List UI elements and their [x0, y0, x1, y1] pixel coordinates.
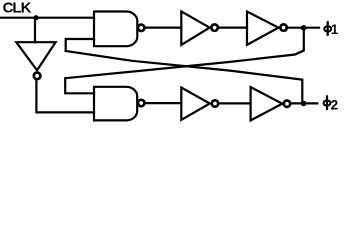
wire feedback from phi2 node: diagonal up-left to NAND U1: [66, 51, 303, 103]
nand U1 (top): [94, 12, 144, 47]
inverter U6: [181, 88, 218, 120]
svg-text:2: 2: [331, 97, 339, 112]
inverter U7: [251, 87, 291, 120]
wire inverter U2 output down and right to NAND U5 input B: [36, 80, 94, 112]
wire inverter U6 to inverter U7: [219, 102, 250, 104]
wire inverter U3 to inverter U4: [219, 27, 247, 29]
wire NAND U5 output to inverter U6: [145, 102, 181, 104]
label phi1: [324, 22, 339, 37]
svg-text:CLK: CLK: [3, 0, 32, 17]
wire junction down to inverter U2: [34, 18, 36, 43]
label CLK: [3, 0, 32, 17]
nand U5 (bottom): [94, 87, 144, 121]
inverter U3: [181, 11, 218, 45]
node phi2 junction: [301, 101, 307, 107]
svg-text:1: 1: [331, 22, 339, 37]
node phi1 junction: [301, 25, 307, 31]
wire inverter U7 output to phi2 terminal: [291, 102, 317, 104]
inverter U4: [247, 12, 287, 45]
wire inverter U4 output to phi1 terminal: [288, 27, 319, 29]
label phi2: [324, 96, 339, 112]
wire NAND U1 output to inverter U3: [145, 27, 181, 29]
wire NAND U1 input B stub with corner: [66, 39, 94, 51]
wire feedback from phi1 node: down then diagonal to NAND U5: [65, 28, 304, 94]
wire CLK input to NAND U1 input A: [1, 17, 94, 19]
inverter U2 (down-pointing triangle): [16, 42, 55, 79]
node CLK junction: [33, 15, 38, 20]
